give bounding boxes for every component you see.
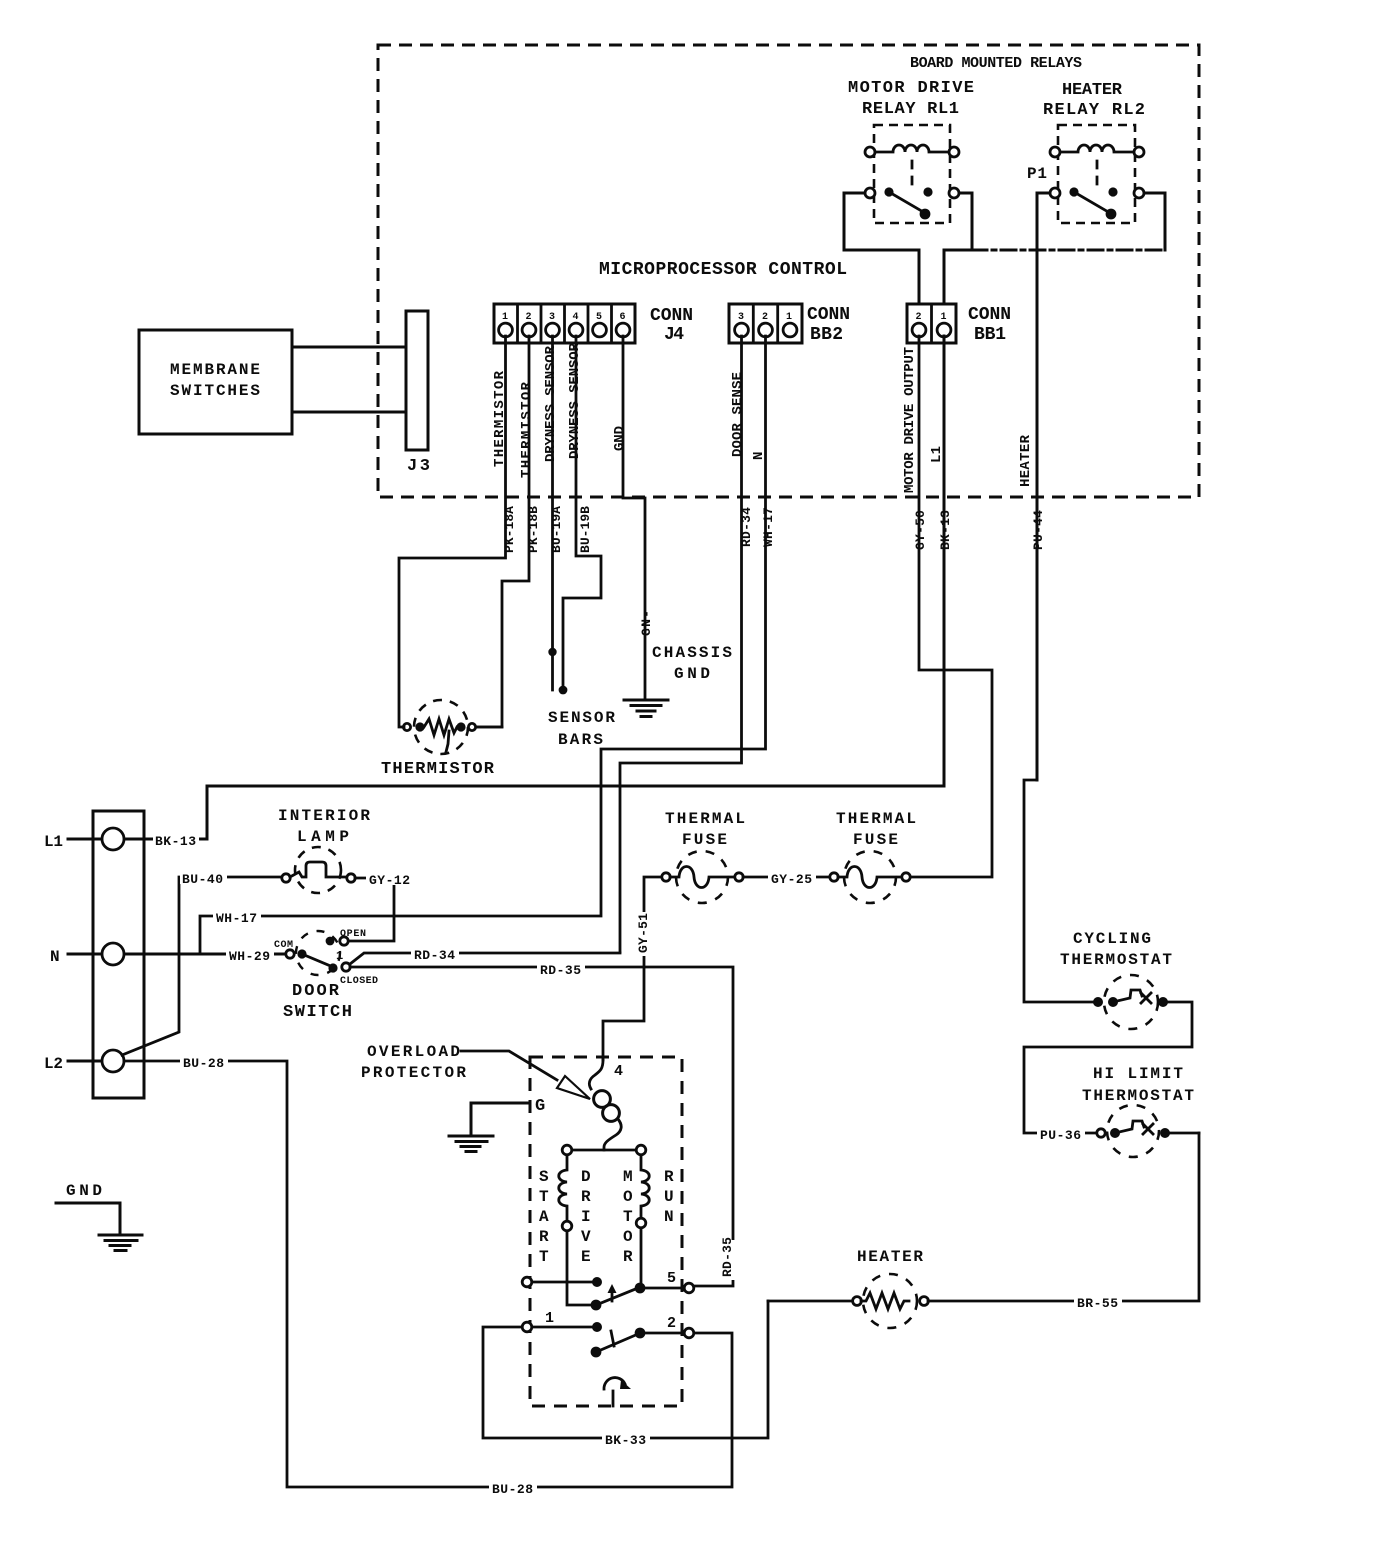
door switch CLOSED contact: [328, 963, 350, 973]
svg-text:BU-28: BU-28: [183, 1056, 224, 1071]
svg-text:1: 1: [786, 312, 792, 323]
wire code BU-19A (rotated): [549, 506, 564, 553]
svg-text:N: N: [664, 1208, 674, 1226]
connector J3: [406, 311, 430, 476]
connector BB1 pin 2: [912, 312, 926, 337]
svg-text:5: 5: [596, 312, 602, 323]
cycling thermostat contacts: [1093, 990, 1168, 1007]
wire L2 bottom loop (net BU-28): [124, 1061, 732, 1487]
label 5 (motor pin): [667, 1270, 676, 1287]
svg-text:2: 2: [916, 312, 922, 323]
label HEATER: [857, 1248, 923, 1266]
svg-text:BK-13: BK-13: [155, 834, 196, 849]
thermal fuse 1 element: [662, 867, 743, 888]
label THERMISTOR pin2 (rotated): [519, 381, 535, 478]
svg-text:1: 1: [502, 312, 508, 323]
label CONN J4: [650, 306, 693, 345]
chassis ground symbol: [624, 700, 668, 717]
wire code WH-29 on N line: [226, 946, 274, 964]
wire L2 to interior lamp (net BU-40): [122, 877, 282, 1055]
wire code GY-51 (rotated): [636, 912, 651, 956]
wire RL1 left to CONN BB1 pin 2: [844, 193, 919, 304]
svg-text:BARS: BARS: [558, 731, 603, 749]
svg-text:CONN: CONN: [807, 305, 850, 325]
svg-text:4: 4: [614, 1063, 623, 1080]
wire motor ground: [471, 1103, 530, 1135]
door switch COM terminal: [286, 949, 307, 958]
wire cycling thermostat to hi limit: [1024, 1002, 1192, 1133]
label THERMISTOR pin1 (rotated): [492, 370, 508, 467]
wire heater to hi limit (net BR-55): [928, 1133, 1199, 1301]
label CONN BB1: [968, 305, 1011, 345]
svg-text:CLOSED: CLOSED: [340, 976, 378, 987]
svg-text:GN-: GN-: [639, 610, 654, 636]
motor dashed enclosure: [530, 1057, 682, 1406]
svg-text:BB2: BB2: [810, 325, 843, 345]
interior lamp dashed circle: [295, 847, 341, 893]
label GND pin6 (rotated): [612, 426, 628, 451]
thermistor resistor element: [403, 719, 502, 752]
svg-text:1: 1: [336, 949, 343, 963]
label N wire BB2 pin2 (rotated): [751, 452, 767, 460]
thermistor dashed circle: [414, 700, 468, 754]
svg-text:OPEN: OPEN: [340, 929, 366, 940]
label G: [535, 1097, 545, 1116]
label 2 (motor pin): [667, 1315, 676, 1332]
label OVERLOAD PROTECTOR: [361, 1043, 466, 1082]
wire J4 pin3 sensor bar (net BU-19A): [551, 336, 554, 690]
connector BB1 pin 1: [937, 312, 951, 337]
label GND lower left: [66, 1182, 102, 1200]
label HEATER wire (rotated): [1018, 434, 1034, 487]
wire code RD-34 (rotated): [739, 507, 754, 547]
svg-text:R: R: [581, 1188, 591, 1206]
wire thermal fuse to motor pin4 (net GY-51): [603, 877, 662, 1060]
label 4 (motor pin): [614, 1063, 623, 1080]
svg-text:3: 3: [549, 312, 555, 323]
svg-text:4: 4: [573, 312, 579, 323]
svg-text:T: T: [539, 1248, 549, 1266]
svg-text:BR-55: BR-55: [1077, 1296, 1118, 1311]
connector J4 body: [494, 304, 635, 343]
label START (vertical): [539, 1168, 549, 1266]
terminal L1: [44, 828, 124, 851]
svg-text:SWITCHES: SWITCHES: [170, 382, 260, 400]
wire code PU-44 (rotated): [1031, 510, 1046, 550]
relay RL1 dashed body: [874, 125, 950, 223]
svg-text:PROTECTOR: PROTECTOR: [361, 1064, 466, 1082]
relay RL1 coil: [865, 145, 959, 157]
wire PU-44 lower run to cycling thermostat: [1024, 780, 1094, 1002]
wire code RD-35 vertical (rotated): [720, 1237, 735, 1280]
connector BB1 body: [907, 304, 956, 343]
relay RL2 coil: [1050, 145, 1144, 157]
wire BB1 pin2 to thermal fuse (net GY-50): [910, 336, 992, 877]
svg-text:GND: GND: [66, 1182, 102, 1200]
label DRIVE (vertical): [581, 1168, 591, 1266]
svg-text:COM: COM: [274, 940, 293, 951]
wire code PU-36: [1037, 1125, 1085, 1143]
sensor bar contact dot lower: [559, 686, 568, 695]
svg-text:THERMAL: THERMAL: [836, 810, 916, 828]
svg-text:THERMAL: THERMAL: [665, 810, 745, 828]
svg-text:THERMISTOR: THERMISTOR: [519, 381, 535, 478]
overload pointer arrow: [461, 1051, 590, 1099]
svg-text:1: 1: [545, 1310, 554, 1327]
wire hi limit to BR-55 corner: [1169, 1132, 1199, 1135]
svg-text:R: R: [664, 1168, 674, 1186]
wire J4 pin4 sensor bar (net BU-19B): [563, 336, 601, 689]
connector J4 pin 4: [569, 312, 583, 337]
wire code BU-40: [180, 869, 227, 887]
label MICROPROCESSOR CONTROL: [599, 260, 847, 280]
svg-text:WH-17: WH-17: [216, 911, 257, 926]
thermal fuse 2 dashed circle: [844, 851, 896, 903]
heater dashed circle: [863, 1274, 917, 1328]
svg-text:6: 6: [620, 312, 626, 323]
svg-text:3: 3: [738, 312, 744, 323]
wire membrane to J3 lower: [292, 411, 406, 414]
svg-text:HI LIMIT: HI LIMIT: [1093, 1065, 1183, 1083]
label P1: [1027, 165, 1047, 183]
svg-text:A: A: [539, 1208, 549, 1226]
svg-text:BK-33: BK-33: [605, 1433, 646, 1448]
start winding coil: [559, 1155, 591, 1305]
svg-text:RELAY RL2: RELAY RL2: [1043, 101, 1145, 120]
motor winding top bar: [562, 1145, 646, 1155]
terminal N: [50, 943, 286, 966]
label CHASSIS GND: [652, 644, 732, 683]
label CONN BB2: [807, 305, 850, 345]
wire heater left lead: [768, 1300, 852, 1303]
connector BB2 pin 1: [783, 312, 797, 337]
svg-text:GY-51: GY-51: [636, 913, 651, 953]
svg-text:L1: L1: [44, 833, 63, 851]
rotation arc arrow: [604, 1378, 631, 1389]
terminal block L1 N L2: [93, 811, 144, 1098]
svg-text:HEATER: HEATER: [1062, 81, 1123, 100]
door switch blade: [302, 954, 333, 967]
wire RL2 right terminal to board edge: [1144, 193, 1165, 250]
svg-text:BU-40: BU-40: [182, 872, 223, 887]
svg-text:HEATER: HEATER: [1018, 434, 1034, 487]
wire BB2 pin3 down (net RD-34): [620, 336, 742, 952]
wire code GY-25: [768, 869, 816, 887]
relay RL1 actuator link: [911, 161, 914, 187]
relay RL2 actuator link: [1096, 161, 1099, 187]
svg-text:J4: J4: [664, 325, 684, 345]
wire code GN- (rotated): [639, 610, 654, 636]
svg-text:M: M: [623, 1168, 633, 1186]
label HI LIMIT THERMOSTAT: [1082, 1065, 1194, 1105]
svg-text:INTERIOR: INTERIOR: [278, 807, 370, 825]
label HEATER RELAY RL2: [1043, 81, 1145, 120]
svg-text:PU-44: PU-44: [1031, 510, 1046, 550]
svg-text:U: U: [664, 1188, 674, 1206]
svg-text:1: 1: [941, 312, 947, 323]
svg-text:GY-50: GY-50: [913, 510, 928, 550]
svg-text:2: 2: [762, 312, 768, 323]
motor ground symbol: [449, 1136, 493, 1152]
label CYCLING THERMOSTAT: [1060, 930, 1172, 969]
label DRYNESS SENSOR pin4 (rotated): [567, 342, 583, 459]
svg-text:MICROPROCESSOR CONTROL: MICROPROCESSOR CONTROL: [599, 260, 847, 280]
svg-text:MOTOR DRIVE OUTPUT: MOTOR DRIVE OUTPUT: [902, 347, 918, 493]
label BOARD MOUNTED RELAYS: [910, 55, 1082, 72]
overload protector element: [589, 1060, 621, 1150]
svg-text:BB1: BB1: [974, 325, 1006, 345]
svg-text:GND: GND: [612, 426, 628, 451]
motor center dashed tick: [612, 1391, 615, 1406]
wire code RD-34: [411, 945, 459, 963]
wire motor pin1 to heater return (net BK-33): [483, 1301, 768, 1438]
label L1 wire BB1 pin1 (rotated): [929, 446, 945, 463]
thermal fuse 1 dashed circle: [676, 851, 728, 903]
svg-text:L2: L2: [44, 1055, 63, 1073]
label INTERIOR LAMP: [278, 807, 370, 846]
svg-text:PU-36: PU-36: [1040, 1128, 1081, 1143]
svg-text:GY-25: GY-25: [771, 872, 812, 887]
svg-text:V: V: [581, 1228, 591, 1246]
svg-text:CONN: CONN: [968, 305, 1011, 325]
wire closed contact to BB2 (net RD-34): [350, 953, 620, 964]
heater element: [853, 1293, 929, 1309]
terminal L2: [44, 1050, 124, 1073]
wire lamp to door switch open contact (net GY-12): [348, 878, 394, 941]
svg-text:THERMOSTAT: THERMOSTAT: [1060, 951, 1172, 969]
svg-text:5: 5: [667, 1270, 676, 1287]
svg-text:THERMISTOR: THERMISTOR: [381, 760, 495, 779]
wire code GY-12: [366, 870, 412, 888]
svg-text:O: O: [623, 1228, 633, 1246]
ground symbol lower left: [56, 1203, 142, 1251]
label SENSOR BARS: [548, 709, 615, 749]
microprocessor control board dashed enclosure: [378, 45, 1199, 497]
svg-text:RELAY RL1: RELAY RL1: [862, 100, 959, 119]
label CLOSED: [340, 976, 378, 987]
label DOOR SWITCH: [283, 982, 352, 1022]
connector J4 pin 6: [616, 312, 630, 337]
wire code GY-50 (rotated): [913, 510, 928, 550]
door switch OPEN contact: [326, 937, 349, 946]
connector J4 pin 3: [546, 312, 560, 337]
label THERMAL FUSE 2: [836, 810, 916, 849]
svg-text:DOOR SENSE: DOOR SENSE: [730, 372, 746, 457]
motor centrifugal switch lower: [522, 1322, 694, 1357]
connector BB2 pin 2: [759, 312, 773, 337]
label MOTOR DRIVE RELAY RL1: [848, 79, 974, 119]
svg-text:2: 2: [667, 1315, 676, 1332]
svg-text:MOTOR DRIVE: MOTOR DRIVE: [848, 79, 974, 98]
label THERMAL FUSE 1: [665, 810, 745, 849]
wire membrane to J3 upper: [292, 346, 406, 349]
svg-text:I: I: [581, 1208, 591, 1226]
hi limit thermostat contacts: [1097, 1121, 1170, 1138]
board edge dash-dot line: [972, 249, 1165, 252]
connector J4 pin 2: [522, 312, 536, 337]
svg-text:CONN: CONN: [650, 306, 693, 326]
svg-text:R: R: [539, 1228, 549, 1246]
wire RL1 right to CONN BB1 pin 1: [944, 193, 972, 304]
svg-text:S: S: [539, 1168, 549, 1186]
label MOTOR (vertical): [623, 1168, 633, 1266]
start switch actuator arrow: [608, 1284, 617, 1301]
run winding coil: [636, 1155, 649, 1283]
wire BB2 pin2 down (net WH-17): [200, 336, 766, 954]
label MOTOR DRIVE OUTPUT (rotated): [902, 347, 918, 493]
svg-text:WH-29: WH-29: [229, 949, 270, 964]
label DRYNESS SENSOR pin3 (rotated): [543, 345, 559, 462]
svg-text:RD-35: RD-35: [720, 1237, 735, 1277]
svg-text:T: T: [623, 1208, 633, 1226]
svg-text:RD-35: RD-35: [540, 963, 581, 978]
wire code BU-19B (rotated): [578, 506, 593, 553]
relay RL2 switch: [1050, 187, 1144, 219]
cycling thermostat dashed circle: [1104, 975, 1158, 1029]
relay RL1 switch: [865, 187, 959, 219]
lower switch crossing tick: [611, 1331, 614, 1346]
svg-text:BU-19B: BU-19B: [578, 506, 593, 553]
svg-text:R: R: [623, 1248, 633, 1266]
interior lamp element: [282, 862, 355, 882]
svg-text:N: N: [50, 948, 60, 966]
svg-text:P1: P1: [1027, 165, 1047, 183]
svg-text:BU-28: BU-28: [492, 1482, 533, 1497]
wire J4 pin2 to thermistor right (net PK-18B): [476, 336, 529, 727]
svg-text:GND: GND: [674, 665, 710, 683]
door switch dashed circle: [296, 931, 340, 975]
wire code BU-28 lower: [489, 1479, 537, 1497]
wire J4 pin6 to chassis ground (net GN-): [623, 336, 645, 700]
wire BB1 pin1 to L1 (net BK-13): [125, 336, 944, 839]
svg-text:GY-12: GY-12: [369, 873, 410, 888]
connector J4 pin 5: [593, 312, 607, 337]
motor start switch upper: [522, 1277, 694, 1310]
wire code WH-17 (rotated): [761, 507, 776, 547]
wire code BK-33: [602, 1430, 650, 1448]
wire J4 pin1 to thermistor left (net PK-18A): [399, 336, 506, 727]
label THERMISTOR: [381, 760, 495, 779]
label 1 (motor pin): [545, 1310, 554, 1327]
svg-text:THERMOSTAT: THERMOSTAT: [1082, 1087, 1194, 1105]
svg-text:RD-34: RD-34: [414, 948, 455, 963]
svg-text:2: 2: [526, 312, 532, 323]
wire code PK-18A (rotated): [502, 506, 517, 553]
svg-text:G: G: [535, 1097, 545, 1116]
wire code PK-18B (rotated): [526, 506, 541, 553]
connector BB2 pin 3: [735, 312, 749, 337]
wire code BK-13 (rotated): [938, 510, 953, 550]
svg-text:DRYNESS SENSOR: DRYNESS SENSOR: [543, 345, 559, 462]
label DOOR SENSE (rotated): [730, 372, 746, 457]
wire code BU-28 upper: [180, 1053, 228, 1071]
sensor bar contact dot upper: [548, 648, 556, 656]
label COM: [274, 940, 293, 951]
label OPEN: [340, 929, 366, 940]
wire between fuses (net GY-25): [743, 876, 830, 879]
svg-text:BOARD MOUNTED RELAYS: BOARD MOUNTED RELAYS: [910, 55, 1082, 72]
svg-text:CYCLING: CYCLING: [1073, 930, 1151, 948]
hi limit thermostat dashed circle: [1107, 1105, 1159, 1157]
svg-text:WH-17: WH-17: [761, 507, 776, 547]
svg-text:O: O: [623, 1188, 633, 1206]
svg-text:DOOR: DOOR: [292, 982, 340, 1001]
wire closed contact to motor pin5 (net RD-35): [350, 967, 733, 1286]
relay RL2 dashed body: [1058, 125, 1135, 223]
thermal fuse 2 element: [830, 867, 910, 888]
wire code BR-55: [1074, 1293, 1122, 1311]
connector BB2 body: [729, 304, 802, 343]
svg-text:T: T: [539, 1188, 549, 1206]
label RUN (vertical): [664, 1168, 674, 1226]
svg-text:E: E: [581, 1248, 591, 1266]
svg-text:MEMBRANE: MEMBRANE: [170, 361, 260, 379]
wire code BK-13 on L1 line: [153, 831, 199, 849]
connector J4 pin 1: [499, 312, 513, 337]
membrane switches box: [139, 330, 292, 434]
wire RL2 left terminal down (net PU-44 upper): [1037, 193, 1050, 780]
wire code RD-35: [537, 960, 585, 978]
svg-text:D: D: [581, 1168, 591, 1186]
label 1 (door switch): [336, 949, 343, 963]
wire code WH-17 on N branch: [213, 908, 261, 926]
